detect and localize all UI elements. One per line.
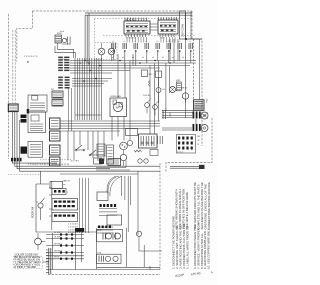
lock motor M3 [115, 233, 121, 239]
thermal switch TS1 [145, 103, 150, 108]
mid band drop wires [68, 131, 104, 161]
wire label stack upper [58, 57, 63, 59]
mid wire joins [96, 161, 130, 171]
hatched component HT1 [176, 82, 181, 91]
cabinet outline lower-left dotted b [8, 174, 40, 176]
connector shell P8 [50, 145, 61, 155]
oven light switch S8 [35, 238, 42, 245]
latch assembly box C [28, 142, 43, 158]
fan leads [112, 98, 130, 141]
wire bus mid 1 [60, 120, 160, 122]
motor cluster box [97, 230, 123, 242]
svg-text:5. LABEL ALL WIRES PRIOR TO: 5. LABEL ALL WIRES PRIOR TO [186, 226, 190, 269]
element switch chain A [142, 70, 148, 77]
lock motor contact bars [100, 204, 102, 207]
console dashed box bottom [103, 35, 196, 37]
connector P4 [52, 91, 63, 98]
bottom bus wire 2 [49, 269, 161, 271]
top feed bend-down wires [85, 13, 89, 66]
harness dashed wire b [14, 30, 16, 103]
feed crossbar [186, 38, 203, 40]
lower cluster box [97, 254, 122, 263]
oven lamp dashed box [95, 43, 118, 60]
oven light receptacle R1 [201, 112, 208, 119]
cabinet outline mid vertical [159, 163, 161, 270]
thermal switch TS2 [153, 105, 158, 110]
svg-text:2: 2 [67, 192, 68, 194]
door switch S7 [38, 203, 43, 208]
svg-text:DOOR SW: DOOR SW [33, 206, 35, 218]
cabinet outline bottom edge [48, 274, 160, 276]
bus drop wires mid [118, 61, 130, 99]
svg-text:SW: SW [149, 74, 152, 76]
console dashed box top [94, 18, 192, 20]
probe jack J1 [126, 129, 138, 136]
connector shell P9 [50, 157, 61, 166]
lock unit box mid [52, 199, 78, 211]
wire bus mid 5 [60, 130, 120, 132]
harness bend wire 2 [15, 161, 160, 166]
small box on band2 a [94, 158, 102, 164]
svg-text:HL: HL [163, 89, 165, 91]
ladder rung 2 [46, 238, 84, 240]
fan motor B3 [120, 142, 128, 150]
indicator lamp DS3 [127, 140, 132, 145]
ladder rung 6 [46, 258, 84, 260]
mid connector box A [97, 144, 105, 156]
svg-text:a1: a1 [122, 57, 124, 59]
bottom bus wire 1 [97, 266, 161, 268]
small pilot lamp DS7 [136, 231, 141, 236]
svg-text:a1: a1 [152, 57, 154, 59]
ladder rung 4 [46, 252, 84, 254]
wire L2 top feed [85, 14, 192, 16]
board A2 drop wires [161, 37, 175, 43]
svg-text:LATCH: LATCH [63, 179, 70, 182]
svg-text:HTR: HTR [176, 80, 181, 82]
connector shell P6 [50, 118, 61, 129]
svg-text:DISP CONN: DISP CONN [182, 23, 185, 37]
clock board A2 [158, 20, 178, 34]
convection fan box [110, 98, 127, 117]
oven lamp DS2 [108, 48, 115, 55]
relay contacts K1-K8 [112, 43, 116, 49]
wire bus mid 2 [60, 123, 160, 125]
svg-text:5 6 7 8 9: 5 6 7 8 9 [71, 160, 80, 162]
svg-text:CONV FAN: CONV FAN [110, 95, 121, 98]
lock motor M2 [106, 233, 112, 239]
svg-text:1 2 3 4: 1 2 3 4 [177, 152, 183, 154]
ladder rung 1 [46, 234, 84, 236]
harness bend wire 1 [12, 161, 57, 163]
harness connector row [11, 158, 13, 162]
relay aux contacts [158, 136, 163, 144]
svg-text:CONNECTIONS BEFORE SERVICE: CONNECTIONS BEFORE SERVICE [207, 182, 211, 230]
latch rung group [52, 189, 66, 195]
oven lamp DS6 [170, 87, 176, 93]
lower run wire 5 [60, 173, 138, 175]
latch assembly box A [28, 95, 47, 112]
svg-text:LK SW 1: LK SW 1 [54, 232, 61, 234]
curved harness wires [107, 176, 122, 196]
wire L1 top feed [85, 12, 192, 14]
oven control board A1 pin ticks [125, 18, 147, 22]
bus junction dots [79, 62, 81, 64]
wire run to notes area [170, 165, 200, 167]
svg-text:a1: a1 [142, 57, 144, 59]
lock section feed verticals [122, 171, 139, 235]
double bars lower-left [163, 110, 166, 119]
svg-text:a1: a1 [172, 57, 174, 59]
feed wire right 3 [193, 39, 195, 118]
connector shell P7 [50, 131, 61, 141]
aux contact box [150, 150, 158, 156]
door lock coil L2 [99, 256, 104, 262]
connector P5 [52, 100, 63, 107]
wire bus 9 [72, 83, 104, 85]
ladder rung 5 [46, 255, 84, 257]
svg-text:1 2 3 4 5 6: 1 2 3 4 5 6 [68, 224, 79, 226]
wire bus mid 3 [60, 125, 160, 127]
board A1 drop wires [127, 37, 147, 43]
lock bottom rows [97, 227, 113, 233]
legend leader wire [43, 261, 49, 263]
left connector P3 [8, 104, 18, 112]
svg-text:MTR: MTR [97, 230, 102, 232]
wire bus 7 [72, 78, 112, 80]
oven lamp DS1 [98, 48, 105, 55]
latch connector blobs upper [21, 115, 27, 119]
feed wire right 2 [190, 11, 192, 39]
hinge switch S6 [90, 150, 97, 155]
ground wire left [19, 120, 21, 158]
console dashed box left [93, 19, 95, 43]
door lock relay cluster K11 [177, 135, 196, 154]
cabinet outline right lower box [166, 118, 212, 172]
wire label stack lower [58, 77, 63, 79]
pilot lamps DS4 DS5 [138, 159, 142, 163]
ladder left rail [52, 233, 54, 270]
latch cross wires [36, 188, 52, 216]
element switch chain B [156, 71, 162, 78]
svg-text:1 2 3 4 5 6 7 8: 1 2 3 4 5 6 7 8 [24, 56, 38, 58]
cooling fan B2 [182, 93, 188, 99]
ladder right rail 2 [81, 232, 83, 262]
svg-text:ol ol: ol ol [60, 31, 65, 33]
harness dashed wire a [12, 30, 14, 103]
dark connector CN1 [194, 100, 205, 111]
svg-text:TOD HL: TOD HL [143, 95, 151, 97]
board interconnect wires [150, 24, 158, 30]
lock unit box lower [52, 213, 78, 222]
ladder right rail 1 [74, 228, 76, 270]
convection fan motor B1 [113, 102, 122, 111]
feed wire right 4 [199, 39, 201, 100]
svg-text:1 2 3 4 5 6: 1 2 3 4 5 6 [68, 232, 79, 234]
door lock relay K10 [139, 134, 158, 148]
svg-text:a1: a1 [112, 57, 114, 59]
latch solenoid parts [62, 38, 66, 42]
svg-text:EOC P1: EOC P1 [126, 19, 135, 22]
terminal strip TB1 [48, 248, 50, 274]
resistor R1 [134, 150, 142, 152]
oven control board A1 [124, 21, 150, 34]
wire bus 8 [72, 80, 108, 82]
lock cam box [97, 192, 108, 201]
wire bus 1 [70, 60, 196, 62]
legend dashed box [14, 256, 43, 268]
cabinet outline lower-left dotted a [40, 159, 71, 161]
wire bus 3 [70, 65, 190, 67]
harness bend wire 3 [17, 161, 110, 168]
svg-text:1 2 3 4 5 6 7 8 9 10 11 12 13: 1 2 3 4 5 6 7 8 9 10 11 12 13 14 15 16 1… [28, 164, 70, 166]
svg-text:B: B [27, 60, 29, 64]
wire bus 6 [70, 72, 112, 74]
svg-text:P PINK T TAN BR: P PINK T TAN BR [15, 265, 36, 269]
latch box upper [50, 182, 63, 189]
oven light receptacle R2 [201, 125, 208, 132]
ladder rung 3 [46, 245, 84, 247]
display connector rotated label box [180, 11, 186, 39]
latch connector blob lower [21, 147, 28, 154]
svg-text:DR SW 2: DR SW 2 [54, 251, 62, 253]
hinge switch S5 [76, 145, 84, 150]
wire bus 10 [72, 85, 101, 87]
bottom right rails [97, 228, 151, 270]
mid connector box B [107, 145, 114, 164]
lock section frame [36, 184, 97, 232]
drop to lock section [40, 171, 42, 184]
right console drop wires [170, 39, 178, 63]
svg-text:1 2 3 4 5 6: 1 2 3 4 5 6 [126, 38, 136, 40]
harness bend wire 4 [20, 161, 160, 171]
svg-text:W: W [198, 140, 200, 142]
wire bus mid 4 [60, 128, 150, 130]
svg-text:a1: a1 [162, 57, 164, 59]
board A2 lower pins [160, 34, 174, 37]
switch cluster wires [55, 43, 76, 58]
small connector bits mid [113, 100, 116, 104]
clock board A2 pin ticks [159, 17, 177, 20]
wire bus 4 [70, 67, 160, 69]
harness wires below P3 [12, 112, 17, 158]
receptacle lead wires [162, 116, 196, 131]
oven light receptacle R2 contacts [193, 124, 195, 131]
cabinet outline left edge [8, 14, 10, 159]
svg-text:BR W: BR W [182, 88, 187, 90]
lock inner box [107, 215, 122, 225]
board A1 lower pins [126, 34, 146, 37]
fan motor B4 [120, 154, 126, 160]
ribbon end wire [75, 114, 101, 116]
bus-to-band2 wires [69, 88, 72, 131]
wire bus 2 [70, 62, 196, 64]
wire bus 5 [70, 70, 130, 72]
svg-text:SW1: SW1 [57, 33, 63, 35]
right feed wire a [165, 63, 167, 111]
cabinet outline top-left step [17, 11, 33, 62]
feed wire right 1 [185, 13, 187, 118]
lamp leads [102, 43, 112, 61]
svg-text:LK SW 2: LK SW 2 [54, 237, 61, 239]
membrane switch S1 [55, 35, 62, 43]
console drop wires [114, 50, 191, 68]
cabinet outline top edge [32, 10, 192, 12]
wires into CN1 [162, 108, 194, 117]
bus drop wires right [150, 61, 159, 135]
harness ribbon comb [75, 58, 101, 120]
oven light receptacle R1 contacts [193, 112, 195, 119]
junction dot [185, 38, 187, 40]
svg-text:DR SW 1: DR SW 1 [54, 244, 62, 246]
cabinet outline top-right corner [192, 11, 202, 146]
lock section left rail [51, 181, 53, 230]
small box on band2 b [108, 159, 121, 166]
svg-text:a1: a1 [182, 57, 184, 59]
svg-text:INTLK: INTLK [54, 256, 60, 258]
lock section rails [80, 178, 89, 233]
svg-text:10. USE COPPER WIRE ONLY: 10. USE COPPER WIRE ONLY [207, 228, 211, 269]
right feed wire b [169, 66, 171, 94]
latch assembly box B [28, 112, 46, 133]
dark connector blob [75, 228, 84, 232]
svg-text:a1: a1 [132, 57, 134, 59]
